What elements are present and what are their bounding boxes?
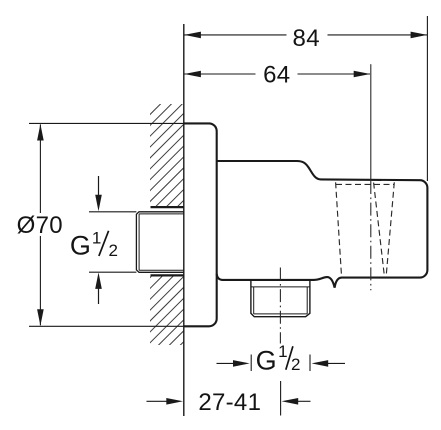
svg-text:1: 1 [92, 229, 101, 248]
svg-text:1: 1 [278, 342, 287, 361]
svg-text:G: G [256, 346, 277, 376]
svg-text:84: 84 [293, 25, 320, 52]
svg-text:27-41: 27-41 [198, 389, 261, 416]
svg-text:2: 2 [291, 355, 300, 374]
svg-text:2: 2 [108, 241, 117, 260]
svg-text:Ø70: Ø70 [17, 212, 63, 239]
svg-text:G: G [70, 230, 91, 260]
svg-text:64: 64 [263, 62, 290, 89]
